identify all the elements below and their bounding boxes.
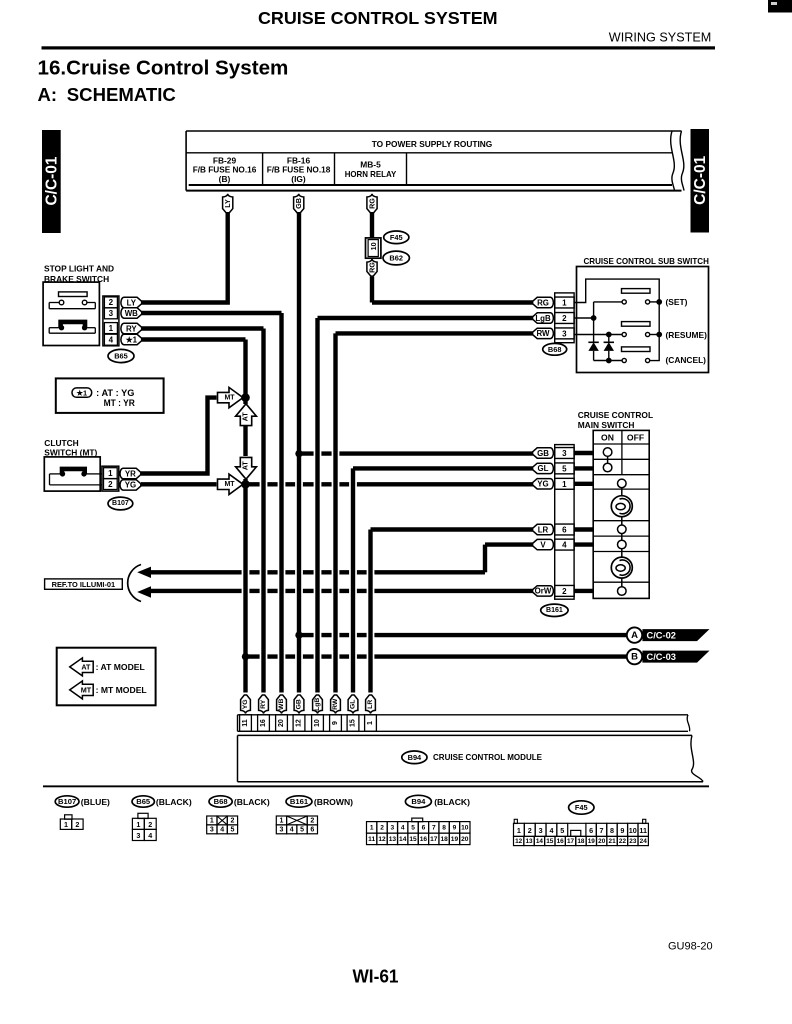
svg-text:3: 3 <box>539 826 543 835</box>
svg-text:MB-5: MB-5 <box>360 160 381 170</box>
svg-text:3: 3 <box>136 831 140 840</box>
svg-text:18: 18 <box>577 838 585 845</box>
svg-text:2: 2 <box>528 826 532 835</box>
svg-text:4: 4 <box>549 826 553 835</box>
svg-text:8: 8 <box>442 824 446 831</box>
svg-text:7: 7 <box>432 824 436 831</box>
svg-text:(BLUE): (BLUE) <box>81 797 110 807</box>
svg-text:F45: F45 <box>390 233 403 242</box>
svg-text:21: 21 <box>609 838 617 845</box>
svg-text:1: 1 <box>370 824 374 831</box>
svg-text:2: 2 <box>380 824 384 831</box>
svg-text:4: 4 <box>290 826 294 833</box>
svg-text:15: 15 <box>350 719 357 727</box>
svg-text:5: 5 <box>300 826 304 833</box>
svg-text:9: 9 <box>620 826 624 835</box>
svg-text:3: 3 <box>109 309 114 318</box>
svg-text:GU98-20: GU98-20 <box>668 941 713 953</box>
svg-text:3: 3 <box>210 826 214 833</box>
svg-text:4: 4 <box>109 336 114 345</box>
svg-text:LgB: LgB <box>314 698 321 711</box>
svg-text:AT: AT <box>81 663 91 672</box>
svg-text:(IG): (IG) <box>291 174 306 184</box>
svg-text:A: A <box>631 630 638 641</box>
svg-text:CLUTCH: CLUTCH <box>44 438 78 448</box>
svg-text:MT : YR: MT : YR <box>104 398 136 408</box>
svg-text:RG: RG <box>368 198 377 209</box>
svg-text:4: 4 <box>220 826 224 833</box>
svg-text:6: 6 <box>310 826 314 833</box>
svg-text:20: 20 <box>461 836 469 843</box>
svg-text:2: 2 <box>562 314 567 323</box>
svg-text:RY: RY <box>260 699 267 709</box>
svg-text:MT: MT <box>224 481 235 488</box>
svg-text:LY: LY <box>127 298 137 307</box>
svg-text:B68: B68 <box>214 797 228 806</box>
svg-text:1: 1 <box>279 817 283 824</box>
svg-text:1: 1 <box>367 721 374 725</box>
svg-text:9: 9 <box>332 721 339 725</box>
svg-text:11: 11 <box>368 836 375 843</box>
svg-text:10: 10 <box>369 242 378 250</box>
svg-text:C/C-01: C/C-01 <box>692 155 709 204</box>
svg-text:4: 4 <box>401 824 405 831</box>
svg-text:A:: A: <box>38 84 58 105</box>
svg-text:3: 3 <box>391 824 395 831</box>
svg-text:★1: ★1 <box>126 335 138 344</box>
svg-text:13: 13 <box>389 836 397 843</box>
svg-text:11: 11 <box>242 719 249 727</box>
svg-text:10: 10 <box>461 824 469 831</box>
svg-text:B62: B62 <box>389 254 403 263</box>
svg-text:: MT MODEL: : MT MODEL <box>96 685 147 695</box>
svg-text:5: 5 <box>230 826 234 833</box>
svg-text:5: 5 <box>560 826 564 835</box>
svg-text:YG: YG <box>125 481 136 490</box>
svg-text:STOP LIGHT AND: STOP LIGHT AND <box>44 263 114 273</box>
svg-text:10: 10 <box>314 719 321 727</box>
svg-text:AT: AT <box>243 461 250 471</box>
svg-text:17: 17 <box>430 836 438 843</box>
svg-text:2: 2 <box>148 820 152 829</box>
svg-text:CRUISE CONTROL SUB SWITCH: CRUISE CONTROL SUB SWITCH <box>584 256 709 266</box>
svg-text:YR: YR <box>125 469 136 478</box>
svg-text:GL: GL <box>538 464 549 473</box>
svg-text:1: 1 <box>136 820 140 829</box>
svg-text:B: B <box>631 651 638 662</box>
svg-text:9: 9 <box>453 824 457 831</box>
svg-text:GB: GB <box>294 198 303 209</box>
svg-text:GL: GL <box>350 700 357 709</box>
svg-text:RW: RW <box>332 698 339 710</box>
svg-text:RY: RY <box>126 324 137 333</box>
svg-text:2: 2 <box>230 817 234 824</box>
svg-text:12: 12 <box>515 838 523 845</box>
svg-text:OrW: OrW <box>535 587 552 596</box>
svg-text:18: 18 <box>440 836 448 843</box>
svg-text:GB: GB <box>296 699 303 709</box>
svg-text:5: 5 <box>562 465 567 474</box>
svg-text:22: 22 <box>619 838 627 845</box>
svg-text:(B): (B) <box>219 174 231 184</box>
svg-text:(BLACK): (BLACK) <box>234 797 270 807</box>
svg-text:8: 8 <box>610 826 614 835</box>
svg-text:F/B FUSE NO.18: F/B FUSE NO.18 <box>267 164 331 174</box>
svg-text:19: 19 <box>451 836 459 843</box>
svg-text:B161: B161 <box>290 797 309 806</box>
svg-text:(BLACK): (BLACK) <box>156 797 192 807</box>
svg-text:: AT : YG: : AT : YG <box>96 388 134 398</box>
svg-text:★1: ★1 <box>75 388 87 397</box>
svg-text:12: 12 <box>378 836 386 843</box>
svg-text:MAIN SWITCH: MAIN SWITCH <box>578 420 635 430</box>
svg-text:11: 11 <box>639 826 647 835</box>
svg-text:C/C-01: C/C-01 <box>44 156 61 205</box>
svg-text:1: 1 <box>108 469 113 478</box>
svg-text:17: 17 <box>567 838 575 845</box>
svg-text:LgB: LgB <box>535 314 551 323</box>
svg-text:B107: B107 <box>112 500 129 507</box>
svg-text:2: 2 <box>108 480 113 489</box>
svg-text:15: 15 <box>546 838 554 845</box>
svg-text:14: 14 <box>536 838 544 845</box>
svg-text:B161: B161 <box>546 607 563 614</box>
svg-text:WI-61: WI-61 <box>353 965 399 986</box>
svg-text:15: 15 <box>409 836 417 843</box>
svg-text:SCHEMATIC: SCHEMATIC <box>67 84 176 105</box>
svg-text:1: 1 <box>517 826 521 835</box>
svg-text:B65: B65 <box>136 797 151 806</box>
svg-text:20: 20 <box>598 838 606 845</box>
svg-text:2: 2 <box>310 817 314 824</box>
svg-text:16: 16 <box>420 836 428 843</box>
svg-text:6: 6 <box>589 826 593 835</box>
svg-text:16: 16 <box>260 719 267 727</box>
svg-text:6: 6 <box>422 824 426 831</box>
svg-text:YG: YG <box>242 699 249 709</box>
svg-text:ON: ON <box>601 433 614 443</box>
svg-text:OFF: OFF <box>627 433 644 443</box>
svg-text:C/C-02: C/C-02 <box>647 631 676 641</box>
svg-text:V: V <box>540 540 546 549</box>
svg-text:CRUISE CONTROL SYSTEM: CRUISE CONTROL SYSTEM <box>258 8 498 28</box>
svg-text:GB: GB <box>537 449 549 458</box>
svg-text:F45: F45 <box>575 803 588 812</box>
svg-text:1: 1 <box>562 480 567 489</box>
svg-text:12: 12 <box>296 719 303 727</box>
svg-text:2: 2 <box>109 298 114 307</box>
svg-text:WIRING SYSTEM: WIRING SYSTEM <box>609 30 712 45</box>
svg-text:4: 4 <box>148 831 152 840</box>
svg-text:RW: RW <box>536 329 550 338</box>
svg-text:1: 1 <box>109 324 114 333</box>
svg-text:(SET): (SET) <box>666 297 688 307</box>
svg-text:CRUISE CONTROL: CRUISE CONTROL <box>578 410 653 420</box>
svg-text:B68: B68 <box>548 345 562 354</box>
svg-text:LY: LY <box>223 199 232 208</box>
svg-text:23: 23 <box>629 838 637 845</box>
svg-text:RG: RG <box>537 298 549 307</box>
svg-text:(BLACK): (BLACK) <box>434 797 470 807</box>
svg-text:REF.TO ILLUMI-01: REF.TO ILLUMI-01 <box>52 580 116 589</box>
svg-text:13: 13 <box>526 838 534 845</box>
svg-text:C/C-03: C/C-03 <box>647 652 676 662</box>
svg-text:1: 1 <box>562 299 567 308</box>
svg-text:LR: LR <box>538 525 549 534</box>
svg-text:AT: AT <box>243 412 250 422</box>
svg-text:: AT MODEL: : AT MODEL <box>96 662 145 672</box>
svg-text:TO POWER SUPPLY ROUTING: TO POWER SUPPLY ROUTING <box>372 139 493 149</box>
svg-text:24: 24 <box>640 838 648 845</box>
svg-text:20: 20 <box>278 719 285 727</box>
svg-text:(BROWN): (BROWN) <box>314 797 353 807</box>
svg-text:MT: MT <box>224 394 235 401</box>
svg-text:2: 2 <box>75 820 79 829</box>
svg-text:5: 5 <box>411 824 415 831</box>
svg-text:B65: B65 <box>114 352 128 361</box>
svg-text:WB: WB <box>278 699 285 710</box>
svg-text:CRUISE CONTROL MODULE: CRUISE CONTROL MODULE <box>433 753 542 762</box>
svg-text:YG: YG <box>537 480 548 489</box>
svg-text:19: 19 <box>588 838 596 845</box>
svg-text:7: 7 <box>600 826 604 835</box>
svg-text:F/B FUSE NO.16: F/B FUSE NO.16 <box>193 164 257 174</box>
svg-text:RG: RG <box>368 262 377 273</box>
svg-text:10: 10 <box>629 826 637 835</box>
svg-text:1: 1 <box>64 820 68 829</box>
svg-text:3: 3 <box>562 330 567 339</box>
svg-text:16.Cruise Control System: 16.Cruise Control System <box>38 58 289 80</box>
svg-text:14: 14 <box>399 836 407 843</box>
svg-text:2: 2 <box>562 587 567 596</box>
svg-text:4: 4 <box>562 541 567 550</box>
svg-text:6: 6 <box>562 526 567 535</box>
svg-text:MT: MT <box>81 686 92 695</box>
svg-text:(RESUME): (RESUME) <box>666 330 708 340</box>
svg-text:B94: B94 <box>411 797 426 806</box>
svg-text:WB: WB <box>125 309 138 318</box>
svg-text:B94: B94 <box>408 753 422 762</box>
svg-text:LR: LR <box>367 700 374 709</box>
svg-text:3: 3 <box>562 449 567 458</box>
svg-text:(CANCEL): (CANCEL) <box>666 355 707 365</box>
svg-text:3: 3 <box>279 826 283 833</box>
svg-text:HORN RELAY: HORN RELAY <box>345 169 397 179</box>
svg-text:B107: B107 <box>58 797 76 806</box>
svg-text:16: 16 <box>557 838 565 845</box>
svg-text:1: 1 <box>210 817 214 824</box>
